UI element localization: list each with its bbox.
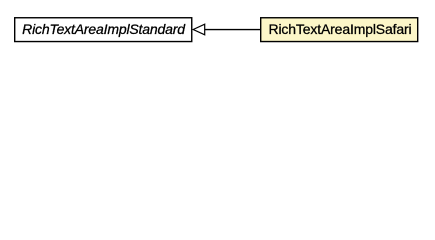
svg-text:RichTextAreaImplSafari: RichTextAreaImplSafari <box>269 21 412 37</box>
svg-text:RichTextAreaImplStandard: RichTextAreaImplStandard <box>22 21 186 37</box>
